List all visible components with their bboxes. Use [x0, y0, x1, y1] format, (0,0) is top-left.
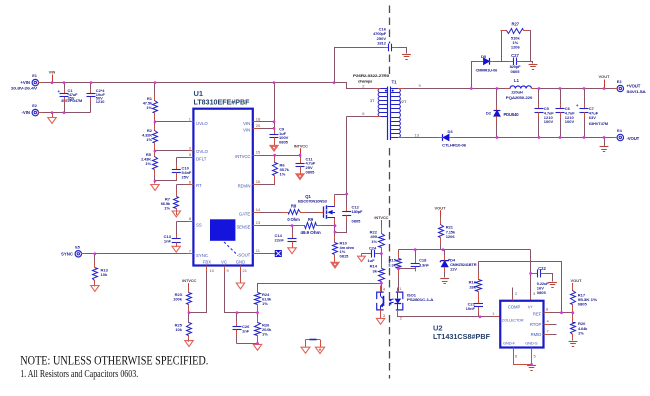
svg-text:FBX: FBX: [203, 259, 211, 264]
svg-text:1: 1: [189, 116, 192, 121]
svg-text:-VOUT: -VOUT: [627, 136, 640, 141]
svg-text:UVLO: UVLO: [196, 121, 208, 126]
svg-text:INTVCC: INTVCC: [294, 143, 308, 148]
svg-text:100V: 100V: [565, 119, 575, 124]
svg-text:8: 8: [546, 307, 549, 312]
svg-text:1%: 1%: [371, 239, 377, 244]
svg-text:0805: 0805: [279, 140, 289, 145]
svg-text:LT1431CS8#PBF: LT1431CS8#PBF: [433, 332, 490, 341]
svg-text:+: +: [576, 103, 579, 108]
svg-text:1%: 1%: [262, 331, 268, 336]
svg-text:22nF: 22nF: [275, 238, 285, 243]
svg-text:54V/1.5A: 54V/1.5A: [627, 89, 647, 94]
svg-text:COLLECTOR: COLLECTOR: [502, 318, 524, 323]
svg-text:RT: RT: [196, 183, 202, 188]
svg-text:0 Ohm: 0 Ohm: [287, 217, 300, 222]
svg-text:VIN: VIN: [49, 70, 56, 75]
svg-text:1: 1: [492, 311, 495, 316]
svg-text:10nF: 10nF: [466, 306, 476, 311]
svg-text:13: 13: [415, 132, 420, 137]
svg-text:-VIN: -VIN: [21, 110, 30, 115]
svg-text:10: 10: [210, 268, 215, 273]
svg-text:5: 5: [189, 152, 192, 157]
svg-text:RTOP: RTOP: [530, 322, 542, 327]
svg-text:C22: C22: [538, 266, 546, 271]
svg-text:20: 20: [256, 123, 261, 128]
svg-text:E5: E5: [75, 244, 81, 249]
svg-text:11: 11: [256, 248, 261, 253]
svg-text:E3: E3: [617, 79, 623, 84]
svg-text:E2: E2: [32, 103, 38, 108]
svg-text:1nF: 1nF: [242, 328, 250, 333]
svg-text:LT8310EFE#PBF: LT8310EFE#PBF: [194, 98, 250, 107]
svg-text:1%: 1%: [280, 171, 286, 176]
svg-text:0805: 0805: [511, 69, 521, 74]
svg-text:220uH: 220uH: [511, 90, 523, 95]
svg-text:+VIN: +VIN: [20, 80, 30, 85]
svg-text:E4: E4: [617, 128, 623, 133]
svg-text:1%: 1%: [578, 331, 584, 336]
svg-text:8: 8: [189, 216, 192, 221]
svg-text:VIN: VIN: [243, 127, 250, 132]
svg-text:0805: 0805: [352, 219, 362, 224]
svg-text:SENSE: SENSE: [236, 225, 250, 230]
svg-text:3.3k: 3.3k: [388, 262, 397, 267]
svg-text:INTVCC: INTVCC: [182, 278, 196, 283]
svg-text:1uF: 1uF: [367, 258, 375, 263]
svg-text:R27: R27: [511, 21, 519, 26]
svg-text:9: 9: [419, 83, 422, 88]
svg-text:SYNC: SYNC: [196, 253, 208, 258]
svg-text:champs: champs: [358, 78, 373, 83]
svg-text:1: 1: [399, 286, 402, 291]
svg-text:0815: 0815: [340, 254, 350, 259]
svg-text:1%: 1%: [262, 301, 268, 306]
svg-text:49.9 Ohm: 49.9 Ohm: [300, 230, 321, 235]
svg-text:1%: 1%: [146, 105, 152, 110]
svg-text:3: 3: [533, 291, 536, 296]
svg-text:VOUT: VOUT: [570, 278, 582, 283]
svg-text:VOUT: VOUT: [434, 205, 446, 210]
svg-text:14: 14: [256, 207, 261, 212]
svg-text:CTLHR10-06: CTLHR10-06: [442, 142, 467, 147]
svg-text:2: 2: [515, 291, 518, 296]
svg-text:VOUT: VOUT: [598, 74, 610, 79]
svg-text:1206: 1206: [446, 234, 456, 239]
svg-text:VC: VC: [221, 259, 227, 264]
svg-text:BSC070N10NS3: BSC070N10NS3: [298, 199, 328, 204]
svg-text:PQA2050-220: PQA2050-220: [506, 95, 533, 100]
svg-text:3: 3: [383, 313, 386, 318]
svg-text:PDU540: PDU540: [504, 112, 520, 117]
svg-text:10k: 10k: [101, 272, 108, 277]
svg-text:E1: E1: [32, 73, 38, 78]
svg-text:V+: V+: [528, 305, 534, 310]
svg-text:SS: SS: [196, 223, 202, 228]
svg-text:11V: 11V: [450, 266, 457, 271]
svg-text:R8: R8: [291, 204, 297, 209]
svg-text:180pF: 180pF: [352, 209, 364, 214]
svg-text:100V: 100V: [544, 119, 554, 124]
svg-text:C27: C27: [511, 53, 519, 58]
svg-text:GND: GND: [236, 259, 246, 264]
svg-text:3.3nF: 3.3nF: [419, 262, 429, 267]
svg-text:+: +: [58, 89, 61, 94]
svg-text:63V: 63V: [589, 115, 596, 120]
svg-text:1nF: 1nF: [164, 239, 172, 244]
svg-text:16: 16: [256, 179, 261, 184]
svg-text:18: 18: [256, 116, 261, 121]
svg-text:6: 6: [362, 111, 365, 116]
svg-text:25V: 25V: [182, 174, 189, 179]
svg-text:7: 7: [189, 248, 192, 253]
svg-text:GATE: GATE: [239, 211, 251, 216]
svg-text:10.8V-26.4V: 10.8V-26.4V: [11, 85, 38, 90]
svg-text:1%: 1%: [146, 137, 152, 142]
svg-text:2: 2: [362, 83, 365, 88]
svg-text:1%: 1%: [164, 206, 170, 211]
svg-text:5: 5: [534, 354, 537, 359]
svg-text:15: 15: [256, 150, 261, 155]
svg-text:7: 7: [547, 328, 550, 333]
svg-text:63HVT47M: 63HVT47M: [589, 121, 609, 126]
svg-text:3T: 3T: [370, 98, 375, 103]
svg-text:100k: 100k: [173, 297, 183, 302]
svg-text:1206: 1206: [511, 45, 521, 50]
svg-text:PS2801C-1-A: PS2801C-1-A: [407, 297, 434, 302]
svg-text:3: 3: [189, 146, 192, 151]
svg-text:INTVCC: INTVCC: [235, 154, 250, 159]
svg-text:NOTE: UNLESS OTHERWISE SPECIFI: NOTE: UNLESS OTHERWISE SPECIFIED.: [20, 353, 208, 367]
svg-text:T1: T1: [392, 80, 398, 85]
svg-text:0805: 0805: [537, 290, 547, 295]
svg-text:REF: REF: [533, 312, 542, 317]
svg-text:D2: D2: [486, 110, 492, 115]
svg-text:1. All Resistors and Capacitor: 1. All Resistors and Capacitors 0603.: [20, 369, 138, 380]
svg-text:3k: 3k: [373, 268, 378, 273]
svg-text:+VOUT: +VOUT: [627, 84, 641, 89]
svg-text:DFLT: DFLT: [196, 157, 207, 162]
svg-text:INTVCC: INTVCC: [374, 215, 388, 220]
svg-text:RMID: RMID: [531, 332, 542, 337]
svg-text:SYNC: SYNC: [61, 251, 73, 256]
svg-text:CMMR1U-06: CMMR1U-06: [476, 67, 498, 72]
svg-text:GND-F: GND-F: [503, 340, 516, 345]
svg-text:13: 13: [256, 220, 261, 225]
svg-text:R9: R9: [308, 217, 314, 222]
svg-text:6: 6: [189, 180, 192, 185]
svg-text:1210: 1210: [96, 99, 105, 104]
svg-text:9: 9: [227, 268, 230, 273]
svg-text:4: 4: [547, 318, 550, 323]
svg-text:0805: 0805: [578, 301, 588, 306]
svg-text:RDVIN: RDVIN: [238, 184, 251, 189]
svg-text:GND-S: GND-S: [525, 340, 538, 345]
svg-text:28k: 28k: [469, 284, 476, 289]
svg-text:U2: U2: [433, 323, 443, 332]
svg-text:COMP: COMP: [508, 305, 521, 310]
svg-text:D5: D5: [481, 54, 487, 59]
svg-text:OVLO: OVLO: [196, 149, 209, 154]
svg-text:0805: 0805: [306, 169, 316, 174]
svg-text:D3: D3: [447, 129, 453, 134]
svg-text:10k: 10k: [175, 327, 182, 332]
svg-text:C24: C24: [369, 246, 377, 251]
svg-text:6: 6: [515, 354, 518, 359]
svg-text:SOUT: SOUT: [238, 253, 250, 258]
svg-text:L1: L1: [514, 78, 520, 83]
svg-text:1%: 1%: [145, 161, 151, 166]
svg-text:VIN: VIN: [243, 121, 250, 126]
svg-text:21: 21: [243, 268, 248, 273]
svg-text:4: 4: [383, 287, 386, 292]
svg-text:1812: 1812: [377, 40, 387, 45]
